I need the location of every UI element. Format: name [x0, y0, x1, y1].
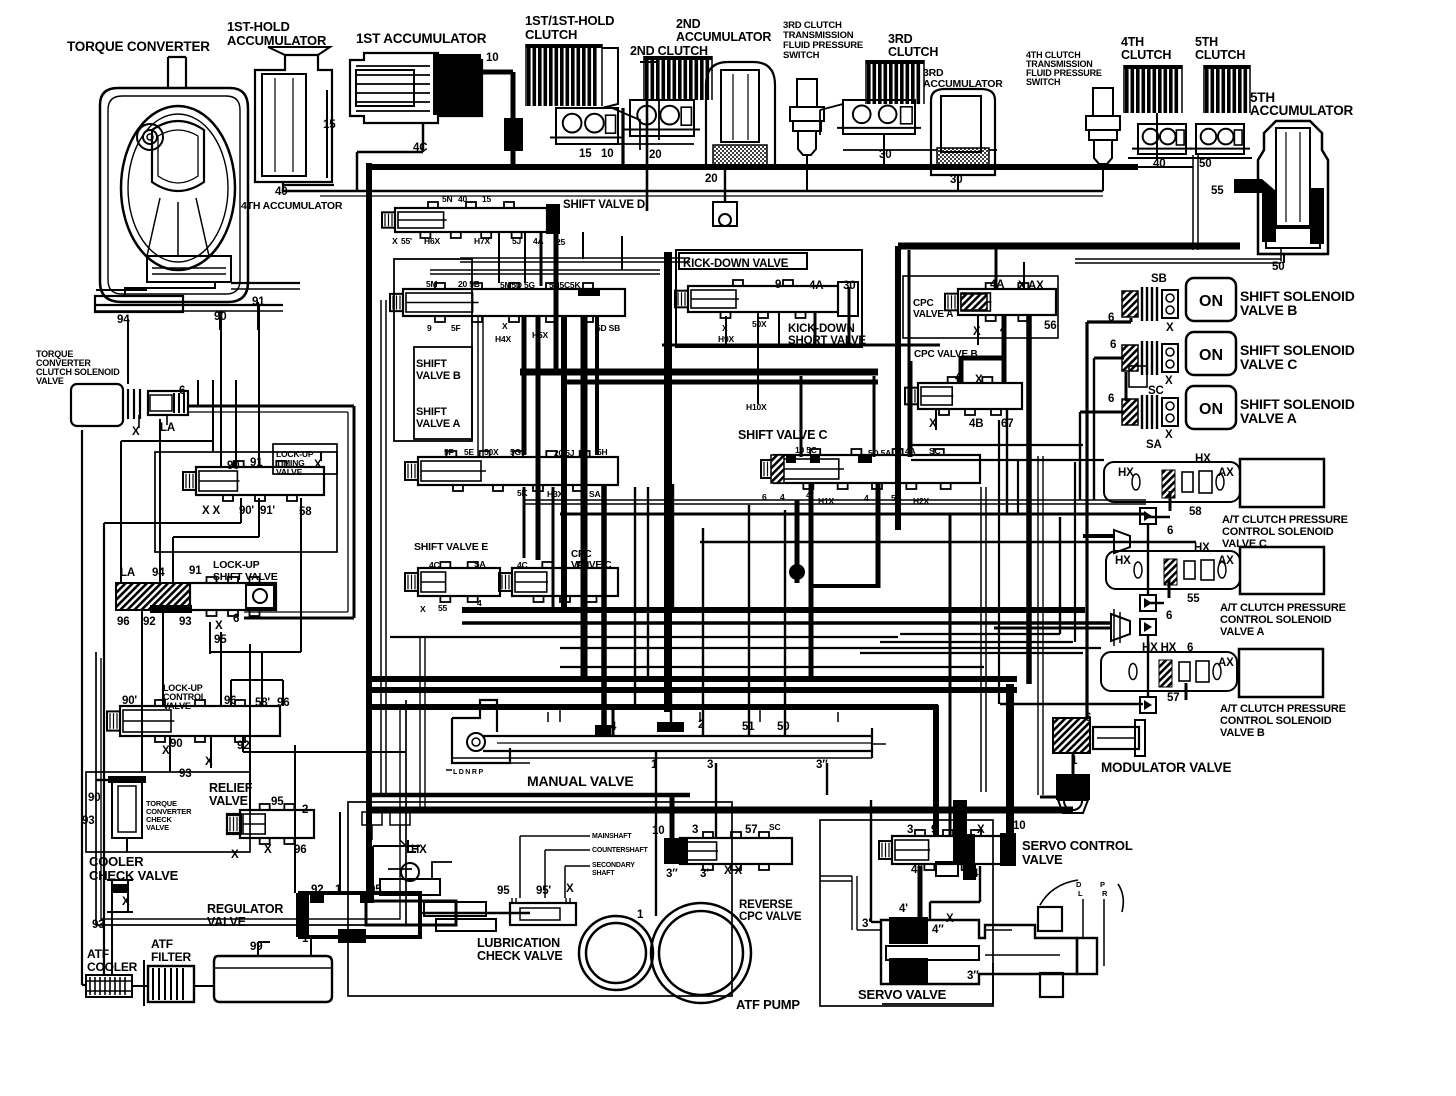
svg-text:P: P	[1100, 880, 1105, 889]
svg-text:95: 95	[214, 634, 227, 646]
svg-text:9: 9	[931, 824, 937, 836]
svg-text:CHECK VALVE: CHECK VALVE	[89, 868, 179, 883]
svg-text:VALVE: VALVE	[146, 823, 169, 832]
svg-text:4B: 4B	[969, 418, 983, 430]
svg-text:RELIEF: RELIEF	[209, 781, 253, 795]
svg-text:91': 91'	[260, 505, 275, 517]
svg-text:X: X	[205, 756, 213, 768]
svg-text:CPC: CPC	[571, 549, 592, 560]
svg-text:VALVE A: VALVE A	[416, 418, 460, 430]
svg-text:2: 2	[698, 719, 704, 731]
svg-text:3: 3	[692, 824, 698, 836]
svg-text:93: 93	[82, 815, 94, 827]
svg-text:5H5C5K: 5H5C5K	[549, 280, 581, 290]
svg-text:6: 6	[1166, 610, 1172, 622]
svg-text:MODULATOR VALVE: MODULATOR VALVE	[1101, 760, 1231, 775]
svg-text:6: 6	[1108, 312, 1114, 324]
svg-text:SHAFT: SHAFT	[592, 870, 615, 877]
svg-text:1: 1	[335, 884, 342, 896]
svg-text:VALVE: VALVE	[163, 701, 191, 711]
svg-text:ATF: ATF	[151, 937, 173, 951]
svg-text:CONTROL SOLENOID: CONTROL SOLENOID	[1220, 715, 1332, 727]
svg-text:95: 95	[497, 885, 510, 897]
svg-text:2: 2	[302, 804, 308, 816]
svg-text:10: 10	[486, 52, 498, 64]
svg-text:57: 57	[1167, 692, 1179, 704]
svg-text:4C: 4C	[413, 142, 427, 154]
svg-text:55: 55	[1211, 185, 1224, 197]
svg-text:91: 91	[252, 296, 265, 308]
svg-text:X: X	[946, 913, 954, 925]
svg-text:SC: SC	[929, 446, 940, 456]
svg-text:REGULATOR: REGULATOR	[207, 902, 283, 916]
svg-text:30: 30	[843, 280, 855, 292]
svg-text:5F: 5F	[444, 447, 454, 457]
svg-text:SA: SA	[589, 489, 600, 499]
svg-text:X X: X X	[202, 505, 220, 517]
svg-text:3″: 3″	[816, 759, 828, 771]
svg-text:CHECK VALVE: CHECK VALVE	[477, 949, 563, 963]
svg-text:4″: 4″	[911, 864, 923, 876]
svg-text:AX: AX	[1218, 555, 1234, 567]
svg-text:9: 9	[775, 279, 781, 291]
svg-text:90': 90'	[122, 695, 137, 707]
svg-text:X: X	[1166, 322, 1174, 334]
svg-text:HX: HX	[1195, 453, 1211, 465]
svg-text:CPC VALVE: CPC VALVE	[739, 911, 802, 923]
svg-text:50X: 50X	[484, 447, 499, 457]
svg-text:6: 6	[179, 385, 185, 397]
svg-text:H10X: H10X	[746, 402, 767, 412]
svg-text:5B: 5B	[891, 493, 902, 503]
svg-text:5G: 5G	[510, 447, 522, 457]
svg-text:90': 90'	[239, 505, 254, 517]
svg-text:10 5C: 10 5C	[795, 445, 817, 455]
svg-text:99: 99	[250, 941, 262, 953]
svg-text:5D SB: 5D SB	[596, 323, 620, 333]
svg-text:4: 4	[806, 490, 811, 500]
svg-text:2ND: 2ND	[676, 17, 701, 31]
svg-text:VALVE A: VALVE A	[913, 309, 953, 320]
svg-text:D: D	[1076, 880, 1082, 889]
svg-text:SHIFT: SHIFT	[416, 406, 447, 418]
svg-text:1ST-HOLD: 1ST-HOLD	[227, 19, 290, 34]
svg-text:96: 96	[224, 695, 236, 707]
svg-text:SERVO CONTROL: SERVO CONTROL	[1022, 838, 1133, 853]
svg-text:92: 92	[237, 740, 249, 752]
svg-text:20: 20	[705, 173, 717, 185]
svg-text:94: 94	[152, 567, 165, 579]
svg-text:VALVE A: VALVE A	[1240, 410, 1297, 426]
svg-text:55': 55'	[401, 236, 412, 246]
svg-text:93: 93	[179, 616, 191, 628]
svg-text:LUBRICATION: LUBRICATION	[477, 936, 560, 950]
svg-text:LA: LA	[160, 422, 175, 434]
svg-text:4': 4'	[972, 868, 981, 880]
svg-text:9: 9	[427, 323, 432, 333]
svg-text:1ST ACCUMULATOR: 1ST ACCUMULATOR	[356, 31, 487, 46]
svg-text:3″: 3″	[967, 970, 979, 982]
svg-text:SERVO VALVE: SERVO VALVE	[858, 987, 947, 1002]
svg-text:REVERSE: REVERSE	[739, 899, 793, 911]
svg-text:SHIFT VALVE D: SHIFT VALVE D	[563, 199, 645, 211]
svg-text:SB: SB	[1151, 273, 1167, 285]
svg-text:1: 1	[302, 933, 309, 945]
svg-text:1: 1	[1071, 755, 1078, 767]
svg-text:6: 6	[1187, 642, 1193, 654]
svg-text:CPC: CPC	[913, 298, 934, 309]
svg-text:CONTROL SOLENOID: CONTROL SOLENOID	[1220, 614, 1332, 626]
svg-text:4: 4	[477, 598, 482, 608]
svg-text:4': 4'	[899, 903, 908, 915]
svg-text:X: X	[502, 321, 508, 331]
svg-text:VALVE: VALVE	[36, 376, 64, 386]
svg-text:50: 50	[1199, 158, 1211, 170]
svg-text:CPC VALVE B: CPC VALVE B	[914, 349, 978, 360]
svg-text:4TH: 4TH	[1121, 35, 1144, 49]
svg-text:4: 4	[610, 721, 617, 733]
svg-text:X: X	[977, 824, 985, 836]
svg-text:SA: SA	[1146, 439, 1162, 451]
svg-text:4: 4	[780, 492, 785, 502]
svg-text:L D N R P: L D N R P	[453, 769, 483, 776]
svg-text:90: 90	[214, 311, 226, 323]
svg-text:H9X: H9X	[718, 334, 734, 344]
svg-text:SHIFT VALVE E: SHIFT VALVE E	[414, 541, 488, 553]
svg-text:SC: SC	[1148, 385, 1164, 397]
svg-text:X: X	[392, 236, 398, 246]
svg-text:4C: 4C	[517, 560, 528, 570]
svg-text:15: 15	[579, 148, 592, 160]
svg-text:ACCUMULATOR: ACCUMULATOR	[227, 33, 327, 48]
svg-text:VALVE C: VALVE C	[571, 560, 611, 571]
svg-text:VALVE B: VALVE B	[1220, 727, 1265, 739]
svg-text:10: 10	[1013, 820, 1025, 832]
svg-text:KICK-DOWN: KICK-DOWN	[788, 323, 855, 335]
svg-text:40: 40	[275, 186, 287, 198]
svg-text:CLUTCH: CLUTCH	[888, 45, 938, 59]
svg-text:X: X	[314, 459, 322, 471]
svg-text:40: 40	[1153, 158, 1165, 170]
svg-text:TORQUE CONVERTER: TORQUE CONVERTER	[67, 39, 210, 54]
svg-text:2ND CLUTCH: 2ND CLUTCH	[630, 44, 708, 58]
svg-text:3″: 3″	[666, 868, 678, 880]
svg-text:4: 4	[955, 372, 962, 384]
svg-text:96: 96	[277, 697, 289, 709]
svg-text:VALVE B: VALVE B	[416, 370, 461, 382]
svg-text:93: 93	[92, 919, 104, 931]
svg-text:X: X	[973, 326, 981, 338]
svg-text:HX: HX	[1118, 467, 1134, 479]
svg-text:56: 56	[1044, 320, 1056, 332]
svg-text:1: 1	[637, 909, 644, 921]
svg-text:H5X: H5X	[532, 330, 548, 340]
svg-text:50: 50	[777, 721, 789, 733]
svg-text:57: 57	[745, 824, 757, 836]
svg-text:6: 6	[1110, 339, 1116, 351]
svg-text:SECONDARY: SECONDARY	[592, 862, 635, 869]
svg-text:A/T CLUTCH PRESSURE: A/T CLUTCH PRESSURE	[1220, 602, 1346, 614]
svg-text:3': 3'	[862, 918, 871, 930]
svg-text:5TH: 5TH	[1195, 35, 1218, 49]
svg-text:SC: SC	[769, 822, 780, 832]
svg-text:ON: ON	[1199, 401, 1223, 418]
svg-text:H4X: H4X	[495, 334, 511, 344]
svg-text:55: 55	[438, 603, 448, 613]
svg-text:4C: 4C	[429, 560, 440, 570]
svg-text:X: X	[975, 374, 983, 386]
svg-text:X: X	[1165, 375, 1173, 387]
svg-text:91: 91	[250, 457, 263, 469]
svg-text:MAINSHAFT: MAINSHAFT	[592, 833, 632, 840]
svg-text:ACCUMULATOR: ACCUMULATOR	[676, 30, 771, 44]
svg-text:5E: 5E	[464, 447, 475, 457]
svg-text:VALVE C: VALVE C	[1240, 356, 1297, 372]
svg-text:96: 96	[117, 616, 129, 628]
svg-text:94: 94	[117, 314, 130, 326]
svg-text:COOLER: COOLER	[89, 854, 144, 869]
svg-text:4: 4	[864, 493, 869, 503]
svg-text:ATF PUMP: ATF PUMP	[736, 997, 800, 1012]
svg-text:VALVE: VALVE	[207, 915, 246, 929]
svg-text:HX: HX	[1115, 555, 1131, 567]
svg-text:51: 51	[742, 721, 755, 733]
svg-text:SHIFT VALVE: SHIFT VALVE	[213, 571, 278, 583]
svg-text:VALVE B: VALVE B	[1240, 302, 1297, 318]
svg-text:6: 6	[1108, 393, 1114, 405]
svg-text:50: 50	[1272, 261, 1284, 273]
svg-text:H3X: H3X	[547, 489, 563, 499]
svg-text:90: 90	[227, 460, 239, 472]
svg-text:VALVE: VALVE	[209, 794, 248, 808]
svg-text:3: 3	[907, 824, 913, 836]
svg-text:26: 26	[663, 722, 673, 732]
svg-text:4: 4	[1000, 324, 1007, 336]
svg-text:4A: 4A	[905, 446, 916, 456]
svg-text:95: 95	[271, 796, 284, 808]
svg-text:SHIFT: SHIFT	[416, 358, 447, 370]
svg-text:X: X	[722, 323, 728, 333]
svg-text:5H: 5H	[597, 447, 608, 457]
svg-text:ACCUMULATOR: ACCUMULATOR	[923, 78, 1003, 90]
svg-text:COOLER: COOLER	[87, 960, 138, 974]
svg-text:67: 67	[1001, 418, 1013, 430]
svg-text:20: 20	[649, 149, 661, 161]
svg-text:91: 91	[189, 565, 202, 577]
svg-text:A/T CLUTCH PRESSURE: A/T CLUTCH PRESSURE	[1220, 703, 1346, 715]
svg-text:4″: 4″	[932, 924, 944, 936]
svg-text:3: 3	[707, 759, 713, 771]
svg-text:5N: 5N	[442, 194, 453, 204]
svg-text:MANUAL VALVE: MANUAL VALVE	[527, 773, 634, 789]
svg-text:92: 92	[311, 884, 323, 896]
svg-text:X: X	[929, 418, 937, 430]
svg-text:VALVE C: VALVE C	[1222, 538, 1267, 550]
svg-text:15: 15	[323, 119, 336, 131]
svg-text:X: X	[162, 745, 170, 757]
svg-text:SA: SA	[474, 559, 485, 569]
svg-text:LOCK-UP: LOCK-UP	[213, 559, 260, 571]
svg-text:10: 10	[601, 148, 613, 160]
svg-text:X X: X X	[724, 865, 742, 877]
svg-text:CLUTCH: CLUTCH	[1121, 48, 1171, 62]
svg-text:90: 90	[170, 738, 182, 750]
svg-text:X: X	[1165, 429, 1173, 441]
svg-text:CLUTCH: CLUTCH	[1195, 48, 1245, 62]
svg-text:CLUTCH: CLUTCH	[525, 27, 577, 42]
svg-text:X: X	[264, 844, 272, 856]
svg-text:6: 6	[1167, 525, 1173, 537]
svg-text:LA: LA	[120, 567, 135, 579]
svg-text:4A: 4A	[990, 279, 1004, 291]
svg-text:5M5D 5G: 5M5D 5G	[500, 280, 536, 290]
svg-text:VALVE A: VALVE A	[1220, 626, 1264, 638]
svg-text:3': 3'	[700, 868, 709, 880]
svg-text:ON: ON	[1199, 347, 1223, 364]
svg-text:92: 92	[143, 616, 155, 628]
svg-text:R: R	[1102, 889, 1108, 898]
svg-text:4TH ACCUMULATOR: 4TH ACCUMULATOR	[241, 200, 343, 212]
svg-text:COUNTERSHAFT: COUNTERSHAFT	[592, 847, 648, 854]
svg-text:X: X	[231, 849, 239, 861]
svg-text:15: 15	[482, 194, 492, 204]
svg-text:90: 90	[88, 792, 100, 804]
svg-text:H6X: H6X	[424, 236, 440, 246]
svg-text:H7X: H7X	[474, 236, 490, 246]
svg-text:6: 6	[233, 613, 239, 625]
svg-text:VALVE: VALVE	[276, 467, 303, 477]
svg-text:ON: ON	[1199, 293, 1223, 310]
svg-text:X: X	[132, 426, 140, 438]
svg-text:20 5J: 20 5J	[554, 448, 575, 458]
svg-text:SWITCH: SWITCH	[783, 50, 820, 61]
svg-text:H1X: H1X	[818, 496, 834, 506]
svg-text:HX HX: HX HX	[1142, 642, 1177, 654]
svg-text:H2X: H2X	[913, 496, 929, 506]
svg-text:ACCUMULATOR: ACCUMULATOR	[1250, 103, 1353, 118]
svg-text:4A: 4A	[809, 280, 823, 292]
svg-text:58: 58	[1189, 506, 1202, 518]
svg-text:40: 40	[458, 194, 468, 204]
svg-text:L: L	[1078, 889, 1083, 898]
svg-text:1: 1	[651, 759, 658, 771]
svg-text:X: X	[122, 896, 130, 908]
svg-text:VALVE: VALVE	[1022, 852, 1063, 867]
svg-text:ATF: ATF	[87, 947, 109, 961]
svg-text:30: 30	[950, 174, 962, 186]
svg-text:X: X	[420, 604, 426, 614]
svg-text:55: 55	[1187, 593, 1200, 605]
svg-text:3RD: 3RD	[888, 32, 913, 46]
svg-text:30: 30	[879, 149, 891, 161]
svg-text:SHORT VALVE: SHORT VALVE	[788, 335, 866, 347]
svg-text:10: 10	[652, 825, 664, 837]
svg-text:AX: AX	[1218, 657, 1234, 669]
svg-text:A/T CLUTCH PRESSURE: A/T CLUTCH PRESSURE	[1222, 514, 1348, 526]
svg-text:KICK-DOWN VALVE: KICK-DOWN VALVE	[683, 258, 789, 270]
svg-text:6: 6	[762, 492, 767, 502]
svg-text:95: 95	[369, 884, 382, 896]
svg-text:AX: AX	[1218, 467, 1234, 479]
svg-text:95': 95'	[536, 885, 551, 897]
svg-text:X AX: X AX	[1018, 280, 1044, 292]
svg-text:4: 4	[960, 825, 967, 837]
svg-text:25: 25	[556, 237, 566, 247]
svg-text:96: 96	[294, 844, 306, 856]
svg-text:58': 58'	[255, 697, 270, 709]
svg-text:5K: 5K	[517, 488, 529, 498]
svg-text:5J: 5J	[512, 236, 522, 246]
svg-text:6: 6	[1085, 712, 1091, 724]
svg-text:4A: 4A	[533, 236, 544, 246]
svg-text:1ST/1ST-HOLD: 1ST/1ST-HOLD	[525, 13, 614, 28]
svg-text:5F: 5F	[451, 323, 461, 333]
svg-text:50X: 50X	[752, 319, 767, 329]
svg-text:93: 93	[179, 768, 191, 780]
svg-text:SHIFT VALVE C: SHIFT VALVE C	[738, 428, 827, 442]
svg-text:X: X	[215, 620, 223, 632]
svg-text:HX: HX	[1194, 542, 1210, 554]
svg-text:FILTER: FILTER	[151, 950, 191, 964]
svg-text:HX: HX	[411, 844, 427, 856]
svg-text:5D 5A: 5D 5A	[868, 448, 891, 458]
svg-text:CONTROL SOLENOID: CONTROL SOLENOID	[1222, 526, 1334, 538]
svg-text:X: X	[566, 883, 574, 895]
svg-text:SWITCH: SWITCH	[1026, 77, 1060, 87]
svg-text:5M: 5M	[426, 279, 438, 289]
svg-text:58: 58	[299, 506, 312, 518]
svg-text:20 5B: 20 5B	[458, 279, 480, 289]
